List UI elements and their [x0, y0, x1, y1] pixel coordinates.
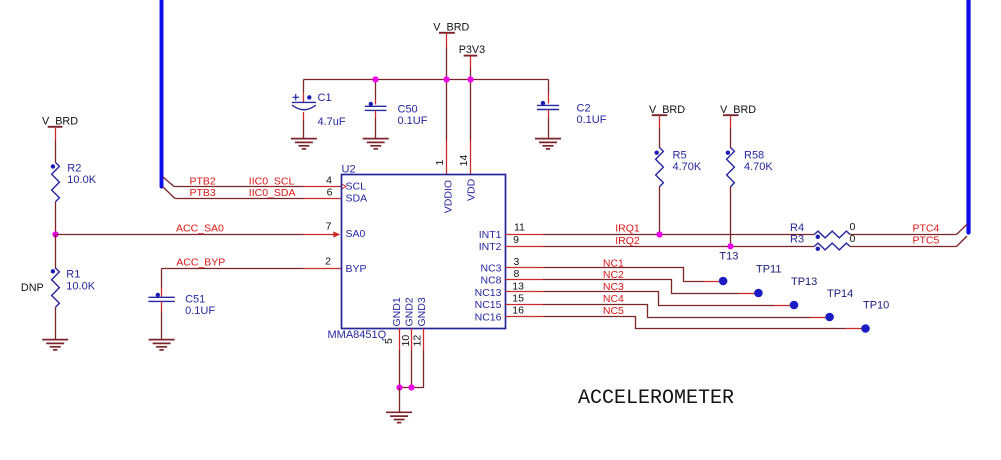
junction GND2 [408, 384, 414, 390]
testpoint unnamed [861, 324, 870, 333]
svg-text:0.1UF: 0.1UF [398, 115, 428, 127]
svg-text:8: 8 [514, 268, 520, 280]
svg-text:3: 3 [514, 256, 520, 268]
svg-text:13: 13 [512, 280, 524, 292]
resistor R4 [790, 221, 856, 239]
power V_BRD R58 [720, 104, 756, 128]
svg-text:NC3: NC3 [603, 281, 624, 293]
svg-text:TP11: TP11 [756, 263, 781, 275]
wire VBRD to R5 [659, 128, 661, 148]
svg-text:R3: R3 [790, 234, 804, 246]
svg-text:GND3: GND3 [416, 297, 428, 326]
svg-text:ACCELEROMETER: ACCELEROMETER [578, 387, 734, 410]
resistor R3 [790, 233, 856, 251]
svg-text:SCL: SCL [346, 181, 367, 193]
svg-text:16: 16 [512, 305, 524, 317]
wire GND to ground [399, 388, 401, 413]
testpoint TP11 [719, 263, 782, 285]
junction R5-IRQ1 [656, 231, 662, 237]
ground C51 [149, 340, 175, 350]
wire junction to R1 [55, 235, 57, 270]
pin numbers left [325, 175, 333, 268]
wire PTC5 [850, 234, 967, 246]
svg-text:NC3: NC3 [480, 263, 501, 275]
power V_BRD top [433, 21, 469, 47]
IC pin names right [475, 229, 502, 323]
svg-text:IIC0_SDA: IIC0_SDA [249, 187, 296, 199]
svg-text:R4: R4 [790, 222, 804, 234]
svg-text:P3V3: P3V3 [459, 44, 485, 56]
svg-text:0.1UF: 0.1UF [577, 114, 607, 126]
svg-text:10.0K: 10.0K [67, 174, 96, 186]
svg-text:NC5: NC5 [603, 305, 624, 317]
wire PTB3 / IIC0_SDA [163, 187, 342, 199]
pin chevron SCL [342, 184, 346, 189]
svg-text:TP13: TP13 [791, 276, 817, 288]
svg-text:V_BRD: V_BRD [42, 116, 78, 128]
svg-text:10.0K: 10.0K [66, 280, 95, 292]
svg-text:R2: R2 [67, 162, 81, 174]
pin numbers right [512, 221, 525, 316]
svg-text:IRQ1: IRQ1 [615, 223, 640, 235]
svg-text:9: 9 [513, 234, 519, 246]
junction R58-IRQ2 T13 [719, 243, 738, 262]
svg-text:TP10: TP10 [863, 300, 889, 312]
op IC U2 outline [328, 163, 506, 341]
wire VBRD to R2 [55, 140, 57, 163]
wire PTB2 / IIC0_SCL [163, 175, 342, 187]
svg-text:V_BRD: V_BRD [433, 21, 469, 33]
wire IRQ1 [506, 223, 815, 235]
wire C50 top stub [375, 99, 377, 105]
resistor R1 [21, 268, 96, 307]
svg-text:14: 14 [458, 155, 470, 167]
svg-text:11: 11 [514, 221, 525, 233]
pin arrow SA0 [333, 231, 340, 237]
wire GND3 pin12 [400, 329, 424, 388]
wire P3V3 to pin14 [470, 68, 472, 175]
svg-text:12: 12 [412, 335, 424, 347]
wire VBRD to R58 [730, 128, 732, 148]
svg-text:IIC0_SCL: IIC0_SCL [249, 175, 295, 187]
svg-text:C1: C1 [318, 92, 332, 104]
svg-text:C51: C51 [185, 293, 205, 305]
svg-text:INT1: INT1 [479, 229, 502, 241]
wire PTC4 [850, 222, 967, 234]
wire C2 top stub [548, 93, 550, 104]
svg-text:0.1UF: 0.1UF [185, 305, 215, 317]
bus right [966, 0, 970, 233]
svg-text:NC1: NC1 [603, 257, 624, 269]
svg-text:T13: T13 [719, 251, 738, 263]
svg-text:ACC_SA0: ACC_SA0 [176, 222, 224, 234]
wire C1 top stub [303, 93, 305, 102]
svg-text:BYP: BYP [346, 263, 367, 275]
junction rail-VBRD [443, 76, 449, 82]
svg-text:TP14: TP14 [827, 288, 853, 300]
svg-text:10: 10 [400, 335, 412, 347]
svg-text:VDD: VDD [466, 178, 478, 201]
svg-text:V_BRD: V_BRD [720, 104, 756, 116]
capacitor C51 [148, 293, 215, 317]
capacitor C50 [365, 102, 428, 127]
wire NC2 [506, 269, 755, 293]
wire ACC_BYP [162, 256, 342, 268]
svg-text:R1: R1 [66, 268, 80, 280]
svg-text:6: 6 [327, 187, 333, 199]
svg-text:C2: C2 [577, 103, 591, 115]
wire R2 to junction [55, 202, 57, 235]
power P3V3 [459, 44, 485, 68]
wire R58 to IRQ2 [730, 187, 732, 247]
pin numbers bottom rotated [383, 335, 423, 347]
wire C2 bottom [548, 110, 550, 139]
ground R1 [42, 340, 68, 350]
wire NC1 [506, 257, 720, 281]
wire C1 bottom [303, 112, 305, 138]
wire NC3 [506, 281, 791, 305]
bus left [160, 0, 164, 187]
svg-text:4: 4 [326, 175, 332, 187]
testpoint TP13 [754, 276, 817, 298]
wire C50 bottom [375, 111, 377, 139]
junction rail-C50 [372, 76, 378, 82]
svg-text:2: 2 [325, 256, 331, 268]
capacitor C1 [292, 92, 346, 128]
wire C51 bottom [161, 302, 163, 340]
ground C50 [363, 139, 389, 149]
ground U2 [386, 412, 412, 422]
svg-text:GND2: GND2 [404, 297, 416, 326]
wire GND2 pin10 [411, 329, 413, 388]
svg-text:IRQ2: IRQ2 [615, 235, 640, 247]
svg-text:INT2: INT2 [479, 241, 502, 253]
ground C2 [535, 139, 561, 149]
svg-text:VDDIO: VDDIO [443, 180, 455, 213]
svg-text:7: 7 [326, 221, 332, 233]
svg-text:4.70K: 4.70K [673, 161, 702, 173]
svg-text:DNP: DNP [21, 282, 44, 294]
svg-text:NC2: NC2 [603, 269, 624, 281]
testpoint TP10 [825, 300, 889, 322]
power V_BRD R5 [649, 104, 685, 128]
svg-text:SDA: SDA [346, 193, 368, 205]
svg-text:NC13: NC13 [475, 287, 502, 299]
svg-text:NC4: NC4 [603, 293, 624, 305]
ground C1 [291, 139, 317, 149]
title ACCELEROMETER [578, 387, 734, 410]
svg-text:SA0: SA0 [346, 228, 366, 240]
wire top power rail [304, 80, 549, 100]
resistor R2 [51, 162, 97, 201]
junction rail-P3V3 [467, 76, 473, 82]
svg-text:MMA8451Q: MMA8451Q [328, 329, 387, 341]
svg-text:PTC5: PTC5 [913, 234, 940, 246]
svg-text:15: 15 [512, 293, 524, 305]
junction SA0 [52, 231, 58, 237]
svg-text:GND1: GND1 [391, 297, 403, 326]
wire ACC_SA0 [56, 222, 335, 234]
IC pin names top rotated [443, 178, 478, 213]
wire GND1 pin5 [399, 329, 401, 388]
svg-text:NC8: NC8 [480, 275, 501, 287]
pin numbers top rotated [434, 155, 470, 167]
wire R1 to ground [55, 307, 57, 339]
svg-text:PTB2: PTB2 [190, 175, 216, 187]
svg-text:V_BRD: V_BRD [649, 104, 685, 116]
wire IRQ2 [506, 235, 815, 247]
svg-text:C50: C50 [398, 103, 418, 115]
power V_BRD left [42, 116, 78, 140]
svg-text:NC16: NC16 [475, 311, 502, 323]
capacitor C2 [537, 101, 607, 126]
svg-text:NC15: NC15 [475, 299, 502, 311]
svg-text:4.7uF: 4.7uF [318, 116, 346, 128]
svg-text:1: 1 [434, 160, 446, 166]
svg-text:4.70K: 4.70K [744, 161, 773, 173]
testpoint TP14 [790, 288, 854, 310]
wire V_BRD to pin1 [446, 47, 448, 175]
resistor R5 [655, 148, 702, 187]
svg-text:ACC_BYP: ACC_BYP [176, 256, 225, 268]
svg-text:5: 5 [383, 338, 395, 344]
svg-text:0: 0 [850, 221, 856, 233]
svg-text:PTC4: PTC4 [913, 222, 940, 234]
wire NC5 [506, 305, 862, 329]
IC pin names left [346, 181, 368, 276]
wire R5 to IRQ1 [659, 187, 661, 235]
IC pin names bottom rotated [391, 297, 428, 326]
svg-text:PTB3: PTB3 [190, 187, 216, 199]
svg-text:U2: U2 [342, 163, 356, 175]
junction GND1 [396, 384, 402, 390]
wire NC4 [506, 293, 826, 318]
resistor R58 [726, 148, 774, 187]
wire BYP to C51 [161, 269, 163, 297]
